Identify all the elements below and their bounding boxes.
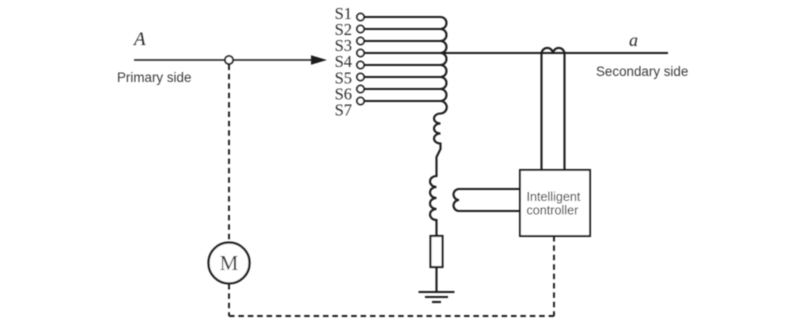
svg-text:controller: controller — [527, 204, 579, 218]
svg-text:a: a — [629, 30, 638, 50]
svg-text:A: A — [132, 29, 146, 50]
svg-text:M: M — [220, 251, 239, 275]
svg-text:S7: S7 — [335, 100, 352, 119]
svg-text:Intelligent: Intelligent — [527, 190, 581, 204]
svg-text:Secondary side: Secondary side — [596, 64, 688, 79]
svg-text:Primary side: Primary side — [117, 70, 191, 85]
